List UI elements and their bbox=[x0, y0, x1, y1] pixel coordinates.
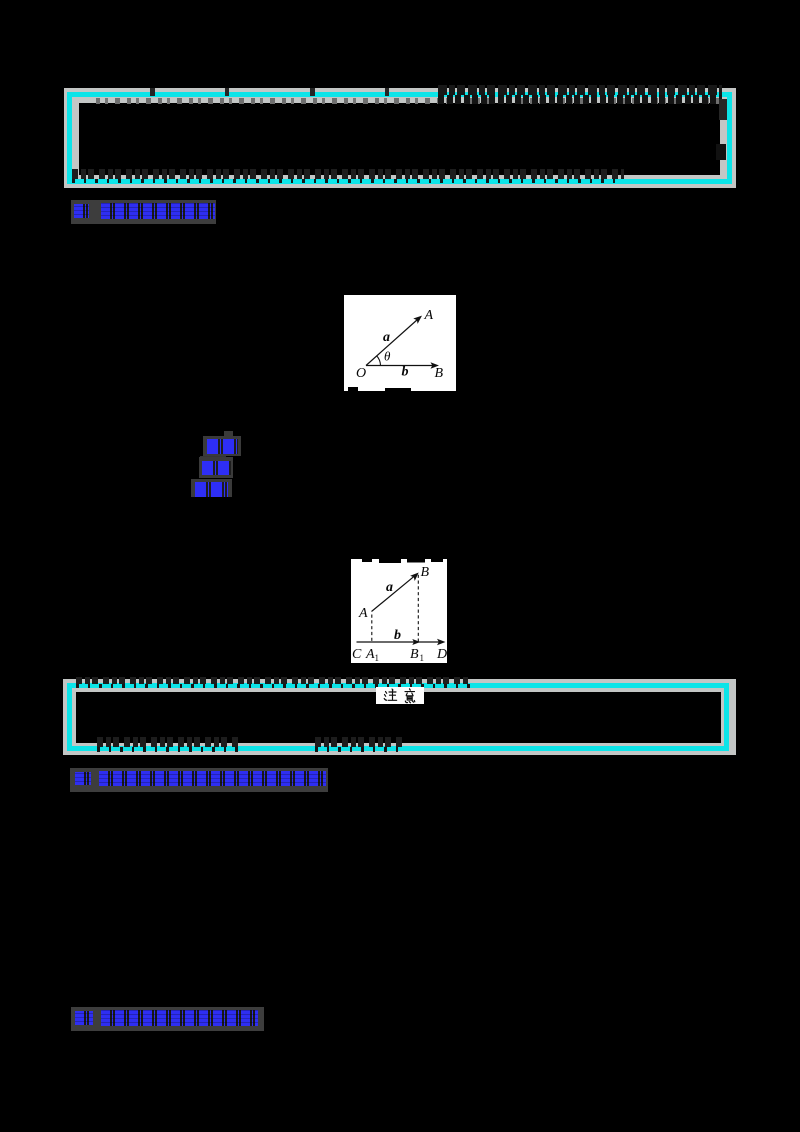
box1 tall glyph tops crossing top border (right half) bbox=[438, 85, 722, 95]
diagonal vector OA bbox=[366, 320, 418, 366]
base line CD with arrow bbox=[357, 641, 443, 643]
svg-text:1: 1 bbox=[420, 653, 425, 663]
vector AB bbox=[372, 575, 416, 611]
dashed perpendicular from B bbox=[417, 575, 419, 642]
svg-text:D: D bbox=[436, 647, 447, 662]
svg-text:a: a bbox=[383, 330, 390, 345]
svg-text:A: A bbox=[358, 606, 368, 621]
svg-text:θ: θ bbox=[384, 349, 391, 364]
svg-text:C: C bbox=[352, 647, 362, 662]
box2 line above overlapping top band bbox=[76, 677, 470, 684]
svg-text:B: B bbox=[421, 565, 430, 580]
heading9 numeral bbox=[75, 1011, 93, 1025]
svg-text:B: B bbox=[410, 647, 419, 662]
box1 right border notch (glyph overlap) bbox=[716, 144, 726, 160]
heading8 phrase bbox=[99, 771, 326, 786]
heading9 backdrop bbox=[71, 1007, 264, 1031]
box1 last text line over bottom band bbox=[72, 169, 624, 179]
projection arrowhead at B1 bbox=[412, 639, 420, 645]
box2 outer gray band bbox=[63, 679, 736, 755]
box2 cyan border bbox=[67, 683, 729, 751]
svg-text:B: B bbox=[435, 366, 444, 381]
svg-text:O: O bbox=[356, 366, 366, 381]
box2 black interior bbox=[76, 692, 721, 743]
black text intrusions at top edge bbox=[362, 559, 372, 562]
box1 first-line glyph tops on inner band bbox=[96, 98, 720, 104]
heading7 backdrop bbox=[71, 200, 216, 224]
svg-text:a: a bbox=[386, 580, 393, 595]
box2 note tag bbox=[376, 687, 424, 704]
box1 outer gray band bbox=[64, 88, 736, 188]
heading9 phrase bbox=[101, 1010, 258, 1026]
heading8 numeral bbox=[75, 772, 91, 785]
heading7 numeral bbox=[74, 204, 89, 218]
heading8 backdrop bbox=[70, 768, 328, 792]
box1 sparse glyph nicks top middle bbox=[150, 88, 390, 96]
box1 black interior (invisible text mass) bbox=[79, 103, 720, 175]
svg-text:A: A bbox=[365, 647, 375, 662]
svg-text:A: A bbox=[424, 308, 434, 323]
dashed perpendicular from A bbox=[371, 615, 373, 642]
box1 cyan border bbox=[67, 92, 732, 184]
heading7 phrase bbox=[101, 203, 215, 219]
box2 last line left cluster bbox=[97, 737, 240, 747]
box2 last line right cluster bbox=[315, 737, 405, 747]
horizontal vector OB bbox=[366, 365, 434, 367]
black text intrusions at bottom edge bbox=[348, 387, 358, 391]
svg-text:1: 1 bbox=[375, 653, 380, 663]
angle arc bbox=[377, 356, 381, 366]
svg-text:b: b bbox=[402, 365, 409, 380]
svg-text:b: b bbox=[394, 628, 401, 643]
